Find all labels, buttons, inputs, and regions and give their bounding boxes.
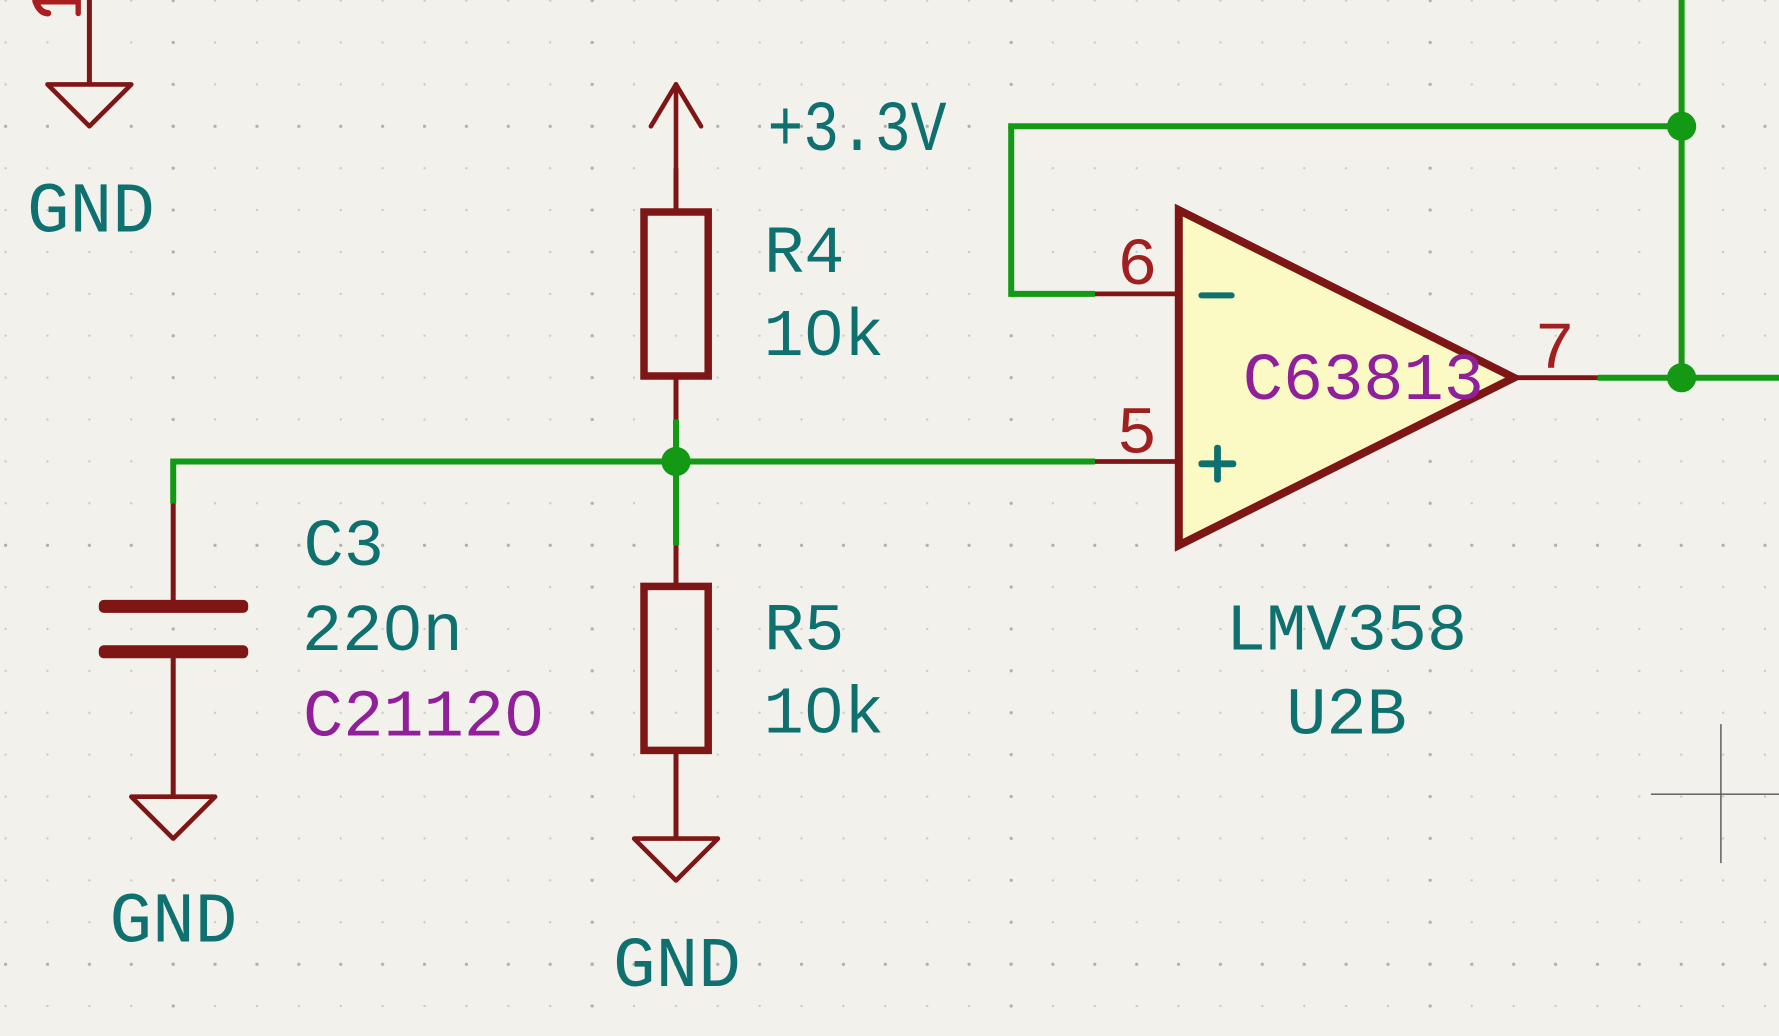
svg-text:R4: R4 bbox=[764, 217, 844, 293]
svg-text:C3: C3 bbox=[304, 510, 384, 586]
body R4 bbox=[644, 212, 708, 376]
pin R5 top bbox=[674, 545, 679, 586]
svg-text:+3.3V: +3.3V bbox=[768, 92, 947, 172]
pin 5 (non-inverting input) bbox=[1095, 459, 1179, 464]
pin R5 bottom bbox=[674, 751, 679, 839]
op-amp U2B bbox=[1095, 210, 1598, 545]
svg-text:GND: GND bbox=[110, 884, 238, 964]
svg-text:220n: 220n bbox=[302, 595, 463, 671]
pin R4 bottom bbox=[674, 376, 679, 420]
power symbol +3.3V bbox=[651, 84, 701, 168]
svg-text:C21120: C21120 bbox=[303, 681, 544, 757]
wire feedback vertical left bbox=[1008, 126, 1014, 297]
pin name minus bbox=[1198, 292, 1234, 298]
plate C3 bottom bbox=[99, 645, 248, 658]
wire feedback horizontal top bbox=[1008, 123, 1681, 129]
wire vertical right bus bbox=[1679, 0, 1685, 378]
svg-text:GND: GND bbox=[27, 174, 155, 254]
svg-text:6: 6 bbox=[1117, 229, 1157, 305]
ground symbol below C3 bbox=[131, 797, 215, 839]
resistor R5 bbox=[644, 545, 708, 838]
plate C3 top bbox=[99, 600, 248, 613]
svg-text:GND: GND bbox=[613, 928, 741, 1008]
wire net A horizontal (to op-amp + input) bbox=[173, 459, 1095, 465]
capacitor C3 bbox=[99, 503, 248, 796]
pin C3 bottom bbox=[171, 656, 176, 797]
pin 6 (inverting input) bbox=[1095, 291, 1179, 296]
resistor R4 bbox=[644, 168, 708, 419]
svg-text:5: 5 bbox=[1117, 397, 1157, 473]
pin R4 top bbox=[674, 168, 679, 212]
svg-text:C63813: C63813 bbox=[1243, 344, 1484, 420]
svg-text:LMV358: LMV358 bbox=[1226, 595, 1467, 671]
wire to op-amp - input bbox=[1011, 291, 1095, 297]
pin of off-screen component down to GND bbox=[87, 0, 92, 84]
wire output to right edge bbox=[1598, 375, 1779, 381]
svg-text:7: 7 bbox=[1535, 313, 1575, 389]
body R5 bbox=[644, 586, 708, 750]
partial off-screen component strokes (top left) bbox=[34, 0, 80, 14]
op-amp triangle body bbox=[1179, 210, 1514, 545]
ground symbol GND1 (top left) bbox=[48, 84, 132, 126]
junction at op-amp output bbox=[1667, 363, 1696, 392]
crosshair marker (bottom right) bbox=[1651, 724, 1779, 863]
pin 7 (output) bbox=[1514, 375, 1598, 380]
junction node A (R4/R5/wire) bbox=[661, 447, 690, 476]
pin name plus bbox=[1198, 445, 1236, 483]
svg-text:R5: R5 bbox=[764, 594, 844, 670]
wire R5 top stub bbox=[673, 462, 679, 546]
wire net A vertical drop to C3 bbox=[170, 459, 176, 504]
junction feedback top right bbox=[1667, 112, 1696, 141]
zero-glyph dot patches (match plain stroke-font zeros) bbox=[397, 325, 830, 721]
wire R4 bottom stub bbox=[673, 420, 679, 462]
pin C3 top bbox=[171, 503, 176, 602]
ground symbol below R5 bbox=[634, 839, 718, 881]
svg-text:U2B: U2B bbox=[1286, 679, 1407, 755]
